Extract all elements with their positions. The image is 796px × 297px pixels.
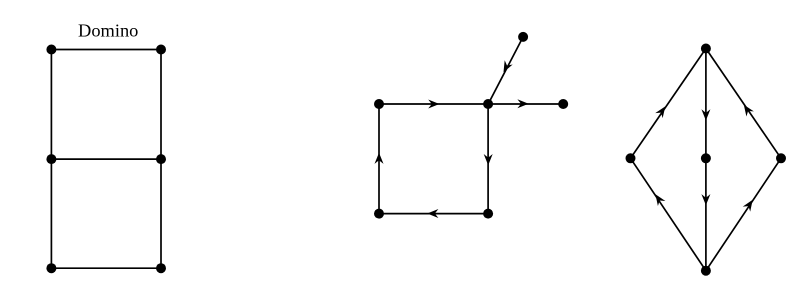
arrowhead diamond left-to-top	[655, 104, 669, 118]
arrowhead diamond bottom-to-left	[652, 192, 666, 206]
node domino top-right	[156, 45, 166, 55]
node pendant right	[558, 99, 568, 109]
wire diamond center-to-bottom	[705, 158, 707, 270]
wire diamond top-to-center	[705, 49, 707, 159]
node diamond center	[701, 153, 711, 163]
arrowhead square top edge right	[428, 100, 439, 109]
node domino mid-left	[46, 154, 56, 164]
node diamond top	[701, 44, 711, 54]
arrowhead diamond top-to-center	[701, 109, 710, 120]
wire square right edge	[487, 104, 489, 214]
wire diamond bottom-to-right	[706, 158, 781, 270]
wire domino right edge	[160, 50, 162, 269]
node square bottom-right	[483, 209, 493, 219]
node square top-left	[374, 99, 384, 109]
wire square left edge	[378, 104, 380, 214]
wire domino top edge	[51, 49, 161, 51]
wire domino bottom edge	[51, 267, 161, 269]
node diamond right	[776, 153, 786, 163]
wire domino middle edge	[51, 158, 161, 160]
wire pendant diagonal edge	[488, 37, 523, 104]
node domino mid-right	[156, 154, 166, 164]
node diamond bottom	[701, 266, 711, 276]
wire pendant right edge	[488, 103, 563, 105]
node diamond left	[626, 153, 636, 163]
arrowhead diamond center-to-bottom	[701, 194, 710, 205]
node square bottom-left	[374, 209, 384, 219]
arrowhead square left edge up	[375, 153, 384, 164]
node domino bottom-left	[46, 263, 56, 273]
arrowhead pendant right edge	[517, 99, 528, 108]
node square top-right	[483, 99, 493, 109]
wire diamond bottom-to-left	[631, 158, 706, 270]
wire square bottom edge	[379, 213, 488, 215]
node pendant top	[518, 32, 528, 42]
arrowhead diamond bottom-to-right	[743, 197, 757, 211]
node domino top-left	[46, 45, 56, 55]
arrowhead pendant diagonal down-left	[500, 60, 513, 74]
arrowhead diamond right-to-top	[740, 102, 754, 116]
wire domino left edge	[50, 50, 52, 269]
wire diamond left-to-top	[631, 49, 706, 159]
arrowhead square bottom edge left	[427, 209, 438, 218]
wire diamond right-to-top	[706, 49, 781, 159]
svg-text:Domino: Domino	[78, 20, 138, 40]
wire square top edge	[379, 103, 488, 105]
arrowhead square right edge down	[484, 154, 493, 165]
node domino bottom-right	[156, 263, 166, 273]
